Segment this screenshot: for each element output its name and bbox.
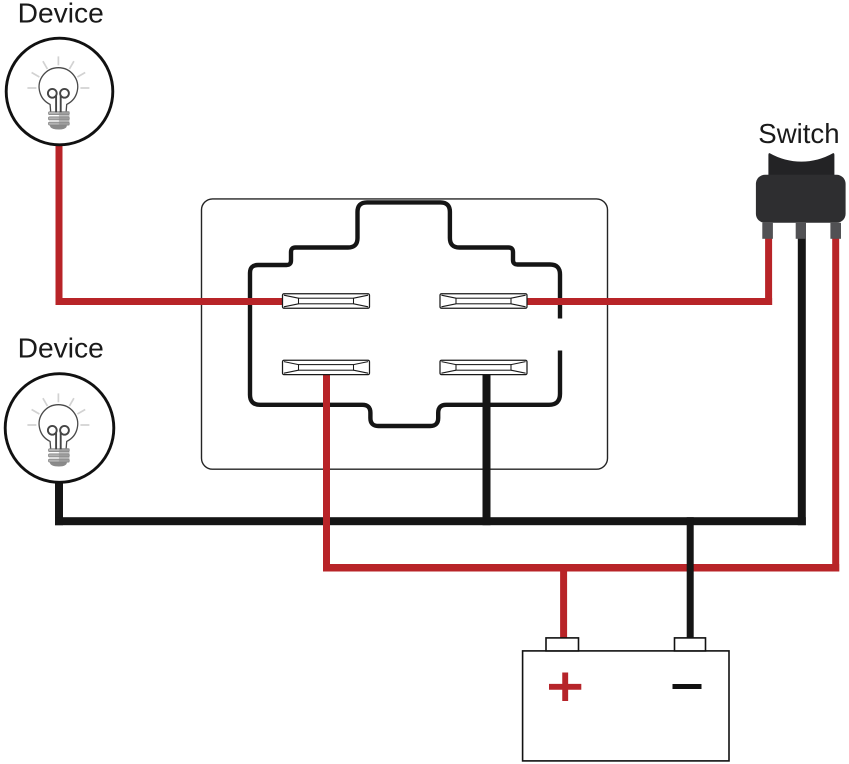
device D2 circle — [5, 374, 114, 483]
wire red: positive bus (to battery + and switch S1 pin 3) — [323, 564, 839, 572]
switch S1 body — [756, 175, 846, 223]
battery minus symbol — [673, 684, 702, 689]
switch S1 rocker button — [768, 153, 834, 176]
wire red: switch S1 right pin down-lead — [832, 238, 839, 572]
wire red: relay T2 to switch S1 left pin — [527, 298, 772, 305]
switch S1 pin 3 — [830, 223, 841, 239]
wire red: switch S1 left pin down-lead — [765, 238, 772, 305]
wire black: main ground bus (device D2 to switch S1 pin 2) — [55, 517, 806, 525]
wire red: relay T3 down-lead — [323, 373, 330, 572]
wire red: device D1 to relay T1 — [56, 298, 283, 305]
wire black: switch S1 middle pin down-lead — [798, 238, 806, 525]
wire red: device D1 down-lead — [56, 138, 63, 305]
wire black: relay T4 down-lead — [483, 373, 491, 525]
relay terminal T2 — [440, 294, 527, 308]
device D1 bulb icon — [27, 56, 89, 129]
relay terminal T4 — [440, 360, 527, 374]
battery positive terminal post — [546, 638, 579, 651]
switch S1 pin 1 — [762, 223, 773, 239]
device D2 bulb icon — [27, 393, 89, 466]
svg-text:Device: Device — [18, 332, 104, 364]
wire black: battery - up-lead (crosses over red bus) — [687, 517, 694, 638]
wire black: device D2 up-lead — [55, 478, 63, 525]
relay K1 socket outline — [250, 202, 560, 426]
svg-text:Switch: Switch — [758, 118, 839, 149]
svg-text:Device: Device — [18, 0, 104, 29]
switch S1 pin 2 — [796, 223, 806, 239]
relay terminal T1 — [283, 294, 370, 308]
battery negative terminal post — [675, 638, 706, 651]
battery BT1 body — [523, 651, 729, 761]
relay terminal T3 — [283, 360, 370, 374]
battery plus symbol — [549, 673, 581, 702]
device D1 circle — [6, 38, 113, 145]
wire red: battery + up-lead — [560, 564, 567, 639]
relay outer boundary box — [202, 199, 608, 469]
